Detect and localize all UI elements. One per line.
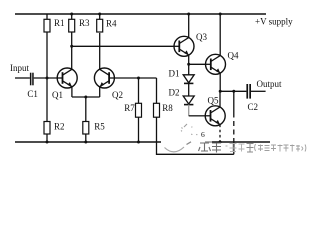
wire R4 bottom to Q2 collector bbox=[99, 33, 101, 69]
wire output node to C2 bbox=[220, 90, 246, 92]
wire R1 top stub bbox=[46, 14, 48, 19]
svg-text:R5: R5 bbox=[94, 122, 105, 132]
transistor Q3 bbox=[174, 36, 194, 56]
diode D1 bbox=[183, 64, 194, 83]
wire Q1 emitter down bbox=[71, 87, 73, 97]
wire node B to Q4 base bbox=[189, 63, 206, 65]
transistor Q1 bbox=[57, 68, 77, 88]
wire Q5 emitter dashed to bottom rail bbox=[219, 125, 221, 143]
resistor R8 bbox=[154, 103, 160, 117]
wire D2 to Q5 base bbox=[188, 105, 190, 116]
resistor R1 bbox=[44, 19, 50, 32]
wire R8 top bbox=[156, 78, 158, 103]
wire top +V rail bbox=[15, 13, 266, 15]
svg-text:R8: R8 bbox=[162, 103, 173, 113]
capacitor C1 bbox=[30, 73, 34, 86]
svg-text:Q3: Q3 bbox=[196, 32, 207, 42]
watermark gray arc bbox=[165, 147, 185, 152]
node dot R7 bottom bbox=[137, 141, 140, 144]
wire feedback vertical to output node bbox=[233, 91, 235, 154]
wire R3 top stub bbox=[71, 14, 73, 19]
node dot Q2 base R7 bbox=[137, 77, 140, 80]
resistor R4 bbox=[97, 19, 103, 32]
node dot common emitter bbox=[84, 96, 87, 99]
svg-text:Q2: Q2 bbox=[112, 90, 123, 100]
svg-text:+V supply: +V supply bbox=[255, 17, 293, 27]
wire base node down to R7 bbox=[138, 78, 140, 103]
wire C1 to Q1 base bbox=[34, 77, 58, 79]
svg-text:Q4: Q4 bbox=[228, 51, 239, 61]
node dot R4 top bbox=[98, 13, 101, 16]
node dot input junction bbox=[46, 77, 49, 80]
wire Q3 collector to rail bbox=[188, 14, 190, 38]
wire R1 bottom to input node bbox=[46, 32, 48, 78]
svg-text:D1: D1 bbox=[169, 69, 180, 79]
node dot A R3-Q3 bbox=[70, 45, 73, 48]
svg-text:Q1: Q1 bbox=[52, 90, 63, 100]
node dot output junction bbox=[219, 90, 222, 93]
transistor Q4 bbox=[206, 54, 226, 74]
node dot Q3 collector top bbox=[187, 13, 190, 16]
wire R5 to bottom rail bbox=[85, 134, 87, 142]
wire node A down to Q1 collector bbox=[71, 46, 73, 69]
node dot R2 bottom bbox=[46, 141, 49, 144]
resistor R3 bbox=[69, 19, 75, 32]
diode D2 bbox=[183, 96, 194, 105]
wire R7 to bottom rail bbox=[138, 117, 140, 142]
node dot B Q3 emitter bbox=[187, 63, 190, 66]
wire node A to Q3 base bbox=[72, 45, 174, 47]
svg-text:R2: R2 bbox=[54, 122, 65, 132]
node dot feedback tap bbox=[232, 90, 235, 93]
svg-text:R3: R3 bbox=[79, 18, 90, 28]
wire R4 top stub bbox=[99, 14, 101, 19]
wire feedback faded patches bbox=[233, 118, 235, 139]
wire bottom rail right segment bbox=[212, 141, 270, 143]
svg-text:D2: D2 bbox=[169, 88, 180, 98]
node dot R3 top bbox=[70, 13, 73, 16]
svg-text:Input: Input bbox=[10, 63, 29, 73]
wire C2 to output lead bbox=[251, 90, 266, 92]
wire Q3 emitter to node B bbox=[188, 55, 190, 64]
wire input node down to R2 bbox=[46, 78, 48, 122]
wire input lead bbox=[15, 77, 30, 79]
wire bottom rail left segment bbox=[15, 141, 161, 143]
wire Q4 collector to rail bbox=[219, 14, 221, 56]
node dot Q5 emitter bottom bbox=[219, 141, 222, 144]
wire R3 bottom to node A bbox=[71, 32, 73, 46]
svg-text:R1: R1 bbox=[54, 18, 65, 28]
svg-text:R7: R7 bbox=[124, 103, 135, 113]
resistor R5 bbox=[83, 122, 89, 135]
wire Q4 emitter to output node bbox=[219, 73, 221, 91]
svg-text:C2: C2 bbox=[248, 102, 259, 112]
watermark diagonal dash bbox=[187, 142, 192, 145]
wire common emitter bbox=[72, 96, 100, 98]
svg-text:C1: C1 bbox=[27, 89, 38, 99]
watermark small dashes bbox=[181, 124, 197, 135]
watermark glyph row bbox=[199, 143, 306, 153]
svg-text:R4: R4 bbox=[106, 18, 117, 28]
node dot R5 bottom bbox=[84, 141, 87, 144]
wire R2 to bottom rail bbox=[46, 134, 48, 142]
resistor R2 bbox=[44, 122, 50, 135]
node dot Q4 collector top bbox=[219, 13, 222, 16]
wire Q2 base to R8 bbox=[114, 77, 156, 79]
wire bottom rail faded middle segment bbox=[205, 141, 212, 143]
wire common node to R5 bbox=[85, 97, 87, 122]
capacitor C2 bbox=[246, 84, 251, 99]
resistor R7 bbox=[136, 103, 142, 117]
wire Q2 emitter down bbox=[99, 87, 101, 97]
wire R8 bottom feedback run bbox=[157, 117, 234, 154]
svg-text:6: 6 bbox=[201, 130, 205, 139]
transistor Q2 bbox=[94, 68, 114, 88]
wire D1 to D2 bbox=[188, 83, 190, 96]
wire Q5 collector up to output node bbox=[219, 91, 221, 107]
svg-text:Q5: Q5 bbox=[208, 96, 219, 106]
transistor Q5 bbox=[205, 106, 225, 126]
svg-text:Output: Output bbox=[257, 79, 283, 89]
